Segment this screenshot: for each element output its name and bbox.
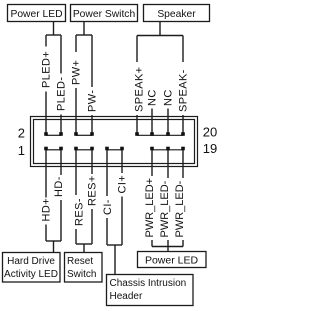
wire HD+ upper segment from pin 1: [45, 149, 47, 198]
wire merge bar Power LED (bottom): [152, 246, 183, 248]
wire stub into Power LED bottom box: [167, 247, 169, 252]
box Hard Drive Activity LED (device): [3, 253, 61, 283]
wire PWR_LED+ lower segment: [151, 240, 153, 247]
svg-text:RES-: RES-: [74, 198, 86, 226]
wire PLED+ upper segment: [45, 35, 47, 47]
wire stub into Hard Drive LED box: [53, 241, 55, 252]
pin 20 square: [181, 132, 185, 136]
box Power LED (top device): [8, 5, 66, 22]
wire PLED+ lower segment to pin 2: [45, 92, 47, 133]
wire NC stub to pin 16: [151, 109, 153, 133]
wire HD+ lower segment: [45, 225, 47, 242]
wire PW+ lower segment to pin 6: [75, 88, 77, 133]
pin 16 square: [150, 132, 154, 136]
pin 15 square: [150, 147, 154, 151]
svg-text:CI-: CI-: [102, 199, 114, 215]
wire fork bar Speaker: [137, 35, 183, 37]
wire SPEAK- upper segment: [182, 36, 184, 63]
svg-text:Power LED: Power LED: [145, 255, 199, 267]
pin group line pins 2-4: [46, 134, 61, 136]
wire HD- upper segment from pin 3: [60, 149, 62, 176]
pin group line pins 1-3: [46, 149, 61, 151]
wire stub into Reset Switch box: [83, 244, 85, 252]
svg-text:Power Switch: Power Switch: [73, 9, 136, 20]
svg-text:19: 19: [203, 141, 217, 156]
pin 3 square: [59, 147, 63, 151]
svg-text:PLED+: PLED+: [41, 51, 53, 88]
wire stub from Speaker box: [159, 22, 161, 36]
svg-text:HD+: HD+: [41, 198, 53, 222]
svg-text:Activity LED: Activity LED: [4, 269, 58, 280]
pin 2 square: [44, 132, 48, 136]
wire HD- lower segment: [60, 200, 62, 241]
svg-text:PW+: PW+: [71, 60, 83, 85]
svg-text:Reset: Reset: [67, 256, 93, 267]
box Power LED (bottom device): [138, 252, 207, 268]
pin 4 square: [59, 132, 63, 136]
pin group line pins 15-17-19: [152, 149, 183, 151]
box Reset Switch (device): [65, 253, 103, 283]
wire RES+ lower segment: [91, 209, 93, 244]
wire stub into Chassis Intrusion box: [114, 245, 116, 274]
pin 6 square: [74, 132, 78, 136]
wire PW- upper segment: [91, 35, 93, 87]
wire CI- upper segment from pin 9: [106, 149, 108, 197]
wire SPEAK- lower segment to pin 20: [182, 115, 184, 133]
svg-text:1: 1: [18, 143, 25, 158]
box Speaker (device): [144, 5, 210, 22]
svg-text:NC: NC: [147, 89, 159, 106]
wire PWR_LED- upper segment from pin 17: [167, 149, 169, 179]
svg-text:PW-: PW-: [87, 90, 99, 112]
wire merge bar Chassis Intrusion: [107, 244, 122, 246]
svg-text:Chassis Intrusion: Chassis Intrusion: [110, 278, 187, 289]
box Power Switch (device): [71, 5, 138, 22]
wire PWR_LED- upper segment from pin 19: [182, 149, 184, 179]
svg-text:Hard Drive: Hard Drive: [7, 256, 55, 267]
svg-text:2: 2: [18, 125, 25, 140]
wire merge bar Reset Switch: [76, 243, 92, 245]
pin 18 square: [166, 132, 170, 136]
wire NC stub to pin 18: [167, 109, 169, 133]
pin 17 square: [166, 147, 170, 151]
svg-text:Speaker: Speaker: [157, 9, 196, 20]
svg-text:PWR_LED+: PWR_LED+: [144, 178, 156, 238]
connector F_PANEL outer rectangle: [31, 117, 198, 167]
wire CI+ upper segment from pin 11: [121, 149, 123, 174]
pin 1 square: [44, 147, 48, 151]
wire CI+ lower segment: [121, 197, 123, 246]
pin group line pins 5-7: [76, 149, 92, 151]
wire PW- lower segment to pin 8: [91, 115, 93, 133]
svg-text:PLED-: PLED-: [56, 77, 68, 111]
wire PWR_LED+ upper segment from pin 15: [151, 149, 153, 177]
wire RES- lower segment: [75, 229, 77, 244]
pin group line pins 14-16-18-20: [137, 134, 183, 136]
svg-text:Power LED: Power LED: [10, 9, 62, 20]
pin 8 square: [90, 132, 94, 136]
pin 19 square: [181, 147, 185, 151]
svg-text:CI+: CI+: [117, 175, 129, 194]
pin group line pins 6-8: [76, 134, 92, 136]
svg-text:Header: Header: [110, 291, 143, 302]
svg-text:20: 20: [203, 124, 217, 139]
wire RES+ upper segment from pin 7: [91, 149, 93, 175]
wire PLED- lower segment to pin 4: [60, 115, 62, 133]
wire PW+ upper segment: [75, 35, 77, 52]
svg-text:SPEAK+: SPEAK+: [134, 66, 146, 112]
pin 7 square: [90, 147, 94, 151]
pin 14 square: [135, 132, 139, 136]
wire RES- upper segment from pin 5: [75, 149, 77, 196]
svg-text:HD-: HD-: [53, 176, 65, 197]
wire fork bar Power Switch: [76, 34, 92, 36]
wire stub from Power LED box: [53, 22, 55, 36]
connector F_PANEL inner rectangle: [34, 120, 195, 164]
box Chassis Intrusion Header (device): [107, 275, 194, 306]
svg-text:PWR_LED-: PWR_LED-: [174, 180, 186, 237]
svg-text:RES+: RES+: [87, 175, 99, 206]
svg-text:Switch: Switch: [67, 269, 96, 280]
wire PLED- upper segment: [60, 35, 62, 74]
wire merge bar Hard Drive LED: [46, 240, 61, 242]
svg-text:SPEAK-: SPEAK-: [178, 69, 190, 112]
wire fork bar Power LED: [46, 34, 61, 36]
pin 11 square: [120, 147, 124, 151]
svg-text:PWR_LED-: PWR_LED-: [159, 180, 171, 237]
pin group line pins 9-11: [107, 149, 122, 151]
pin 9 square: [105, 147, 109, 151]
svg-text:NC: NC: [163, 89, 175, 106]
wire PWR_LED- lower segment 2: [182, 240, 184, 247]
pin 5 square: [74, 147, 78, 151]
wire stub from Power Switch box: [83, 22, 85, 36]
wire PWR_LED- lower segment: [167, 240, 169, 247]
wire SPEAK+ lower segment to pin 14: [136, 115, 138, 133]
wire CI- lower segment: [106, 218, 108, 245]
wire SPEAK+ upper segment: [136, 36, 138, 63]
